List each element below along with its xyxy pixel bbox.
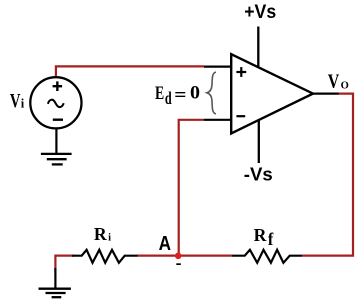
label Vo <box>328 72 349 93</box>
svg-text:V: V <box>10 91 21 112</box>
svg-text:+Vs: +Vs <box>244 1 276 23</box>
Vi bottom stem wire <box>55 128 57 153</box>
label Ed = 0 <box>155 83 200 108</box>
minus sign inside Vi <box>53 118 63 120</box>
svg-text:R: R <box>94 224 108 244</box>
label Ri <box>94 224 111 244</box>
lower-left ground stem <box>54 268 56 288</box>
+Vs supply wire <box>257 27 259 68</box>
wire from op-amp - input down to node A <box>179 120 204 256</box>
plus sign inside Vi <box>53 81 63 91</box>
op-amp U1 triangle <box>231 54 313 133</box>
label Vi <box>10 91 25 112</box>
op-amp output stub <box>312 92 339 94</box>
lower-left ground <box>39 289 71 298</box>
wire from Vi to op-amp + input <box>56 66 204 77</box>
svg-text:i: i <box>21 97 25 111</box>
label Rf <box>254 225 274 249</box>
wire from op-amp output down right side <box>302 94 353 256</box>
resistor Ri <box>72 250 138 263</box>
wire from Ri to lower-left ground <box>55 256 73 271</box>
node A junction dot <box>175 253 182 260</box>
svg-text:-Vs: -Vs <box>244 164 273 185</box>
ground under Vi <box>41 154 72 165</box>
svg-text:i: i <box>108 233 111 244</box>
AC source Vi circle <box>30 77 81 128</box>
op-amp - input stub <box>204 119 231 121</box>
svg-text:=: = <box>174 86 186 106</box>
svg-text:0: 0 <box>190 83 200 104</box>
svg-text:V: V <box>328 72 340 93</box>
op-amp + input marker <box>236 67 246 77</box>
sine symbol inside Vi <box>48 100 64 107</box>
wire from Rf to node A to Ri <box>137 255 232 257</box>
resistor Rf <box>232 250 302 263</box>
svg-text:f: f <box>268 229 274 249</box>
op-amp - input marker <box>236 115 245 117</box>
svg-text:E: E <box>155 84 164 104</box>
svg-text:O: O <box>341 80 349 91</box>
brace for Ed <box>207 72 216 114</box>
svg-text:R: R <box>254 225 268 245</box>
svg-text:A: A <box>159 233 171 255</box>
-Vs supply wire <box>258 119 260 163</box>
tick mark below node A <box>176 263 181 265</box>
op-amp + input stub <box>204 65 231 67</box>
svg-text:d: d <box>165 88 172 108</box>
